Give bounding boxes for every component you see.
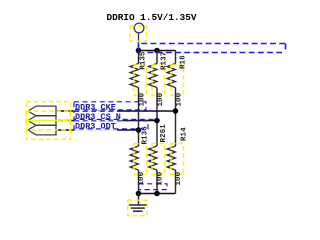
svg-text:100: 100 bbox=[157, 92, 165, 106]
svg-text:R261: R261 bbox=[160, 124, 168, 143]
svg-text:100: 100 bbox=[175, 171, 183, 185]
svg-text:DDRIO 1.5V/1.35V: DDRIO 1.5V/1.35V bbox=[107, 12, 197, 23]
svg-text:R16: R16 bbox=[180, 55, 188, 69]
svg-text:100: 100 bbox=[139, 92, 147, 106]
svg-text:R137: R137 bbox=[161, 51, 169, 70]
svg-text:DDR3_CS_N: DDR3_CS_N bbox=[75, 112, 121, 122]
svg-text:DDR3_ODT: DDR3_ODT bbox=[75, 121, 116, 131]
svg-text:R135: R135 bbox=[140, 51, 148, 70]
svg-text:100: 100 bbox=[176, 92, 184, 106]
svg-text:R14: R14 bbox=[181, 127, 189, 141]
